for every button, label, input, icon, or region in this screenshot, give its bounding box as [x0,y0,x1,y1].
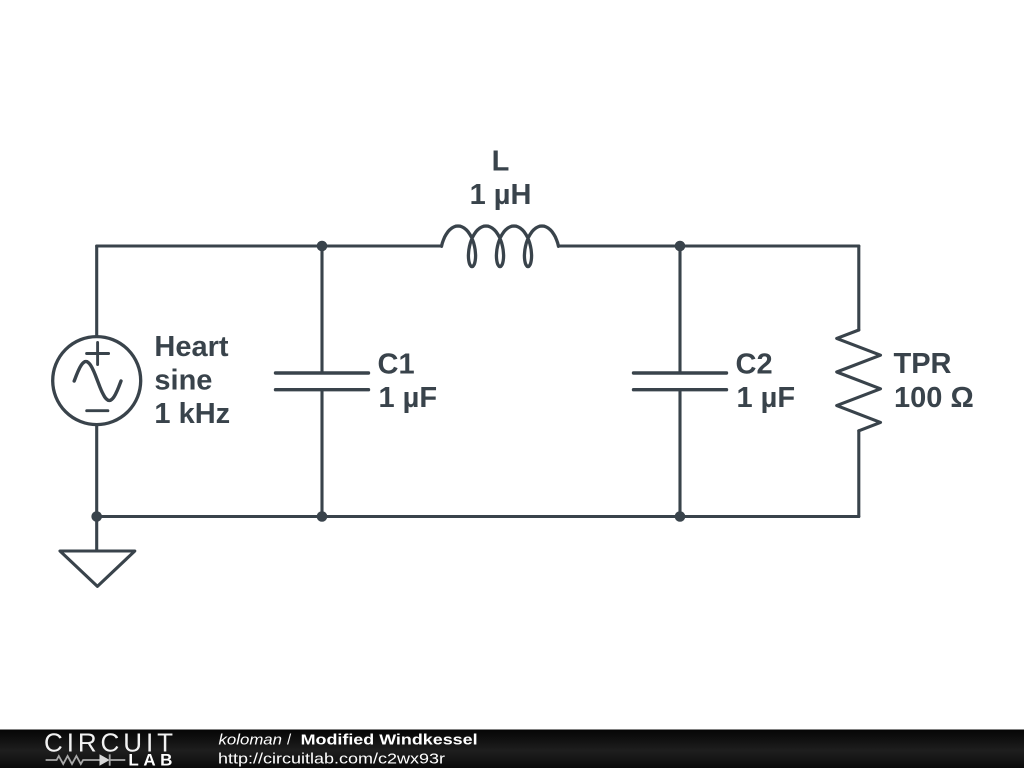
svg-text:1 kHz: 1 kHz [154,398,230,430]
svg-text:C1: C1 [378,348,415,380]
capacitor C1 bottom plate [276,388,369,391]
svg-text:L: L [492,146,510,178]
wire C2 bottom [678,391,681,516]
svg-text:1 µF: 1 µF [379,382,438,414]
node dot bottom C2 [675,511,686,522]
svg-text:http://circuitlab.com/c2wx93r: http://circuitlab.com/c2wx93r [218,751,445,768]
capacitor C2 top plate [634,371,727,374]
node dot bottom left [91,511,102,522]
wire C2 top [678,246,681,372]
wire top right segment [559,244,859,247]
logo diode triangle [100,754,110,765]
logo schematic glyph: wire, resistor zigzag, diode [46,754,126,765]
svg-text:1 µH: 1 µH [470,179,532,211]
node dot bottom C1 [317,511,328,522]
voltage source plus sign [87,343,109,365]
svg-text:Modified Windkessel: Modified Windkessel [301,731,478,748]
node dot top C2 [675,241,686,252]
svg-text:TPR: TPR [894,348,952,380]
wire top left segment [97,244,442,247]
wire left vertical to source [95,246,98,337]
svg-text:1 µF: 1 µF [737,382,796,414]
svg-text:sine: sine [154,365,212,397]
ground symbol [60,517,135,587]
wire C1 top [320,246,323,372]
wire C1 bottom [320,391,323,516]
wire right vertical top [857,246,860,330]
footer bar [0,730,1024,768]
capacitor C1 top plate [276,371,369,374]
svg-text:100 Ω: 100 Ω [894,382,974,414]
svg-text:koloman: koloman [219,731,283,748]
inductor L coil [442,226,559,267]
voltage source V1 circle [53,337,141,425]
svg-text:LAB: LAB [128,751,172,768]
voltage source sine wave [74,362,121,401]
svg-text:Heart: Heart [154,331,228,363]
resistor TPR zigzag [837,330,881,431]
capacitor C2 bottom plate [634,388,727,391]
node dot top C1 [317,241,328,252]
svg-text:C2: C2 [736,348,773,380]
wire source bottom to ground rail [95,425,98,517]
voltage source minus sign [87,409,108,412]
wire right vertical bottom [857,431,860,517]
wire bottom rail [97,515,859,518]
